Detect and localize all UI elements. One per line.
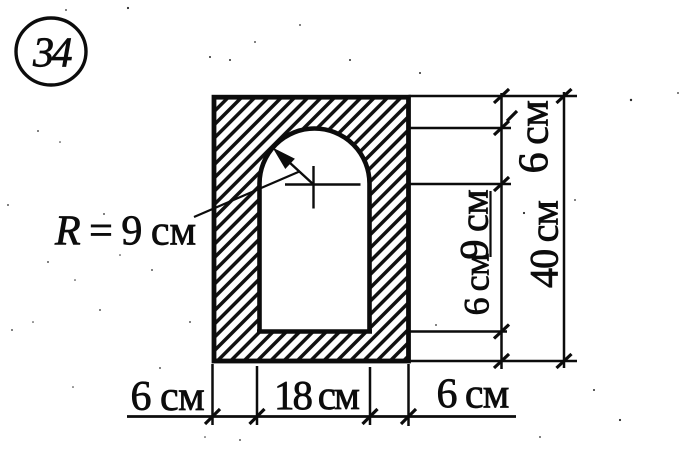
tick marks bottom dimension line xyxy=(205,409,416,424)
svg-text:R = 9 см: R = 9 см xyxy=(54,209,196,255)
svg-text:34: 34 xyxy=(32,31,73,77)
svg-text:6 см: 6 см xyxy=(457,254,497,316)
radius line xyxy=(277,151,314,185)
extension line arc top level xyxy=(409,127,512,130)
extension line arc center level xyxy=(409,183,512,186)
arched opening outline xyxy=(257,129,372,334)
extension line top edge right xyxy=(409,95,578,98)
leader line from R label xyxy=(194,171,300,217)
extension line bottom edge right xyxy=(409,360,578,363)
underline of 9 cm label xyxy=(489,191,491,257)
extension line below left edge xyxy=(211,364,214,425)
extension line below opening right xyxy=(369,367,372,425)
dimension line right inner xyxy=(500,93,503,369)
dimension line right outer xyxy=(563,92,566,368)
svg-text:40 см: 40 см xyxy=(522,200,567,288)
svg-text:6 см: 6 см xyxy=(131,374,205,420)
problem number badge circle xyxy=(16,18,86,85)
arc center mark horizontal line xyxy=(285,183,361,185)
arc center mark vertical line xyxy=(312,166,314,209)
extension line below right edge xyxy=(407,364,410,426)
svg-text:18 см: 18 см xyxy=(274,372,359,418)
tick marks right dimension lines xyxy=(494,89,572,368)
hatched wall cross-section fill xyxy=(214,97,409,361)
extension line below opening left xyxy=(256,366,259,425)
svg-text:6 см: 6 см xyxy=(512,101,558,174)
outer rectangle outline xyxy=(214,97,409,361)
radius arrowhead xyxy=(273,148,295,170)
svg-text:6 см: 6 см xyxy=(437,372,509,418)
extension line opening bottom level xyxy=(409,330,508,333)
bottom dimension line xyxy=(127,415,516,418)
